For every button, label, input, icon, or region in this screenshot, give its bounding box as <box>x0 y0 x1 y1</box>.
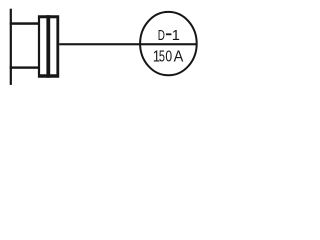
wire bottom stub <box>10 66 39 68</box>
busbar <box>10 9 12 85</box>
label D-1 hyphen <box>166 33 172 35</box>
svg-text:D: D <box>158 27 165 44</box>
wire top stub <box>10 22 39 25</box>
breaker housing rectangle <box>38 15 59 77</box>
svg-text:0: 0 <box>165 47 172 65</box>
svg-text:5: 5 <box>159 48 165 65</box>
wire to feeder circle <box>59 43 197 45</box>
svg-text:1: 1 <box>172 28 180 44</box>
feeder circle D-1 <box>140 12 197 75</box>
label D-1 <box>158 27 180 44</box>
breaker filled bar <box>46 15 50 77</box>
svg-text:A: A <box>174 48 184 66</box>
label 150A <box>153 47 184 66</box>
